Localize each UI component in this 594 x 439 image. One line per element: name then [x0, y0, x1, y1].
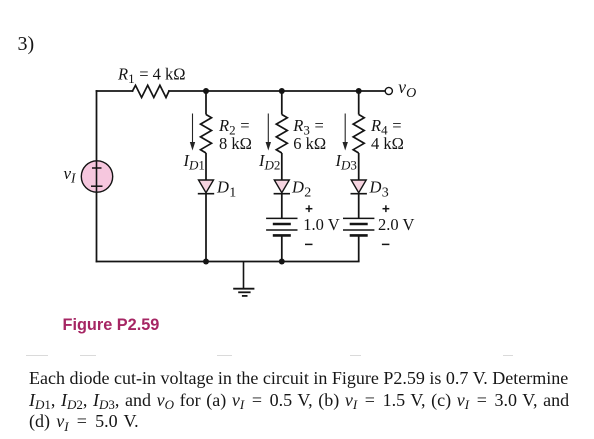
svg-text:ID1: ID1	[183, 151, 205, 173]
svg-text:vI: vI	[64, 164, 78, 186]
svg-text:8 kΩ: 8 kΩ	[219, 134, 252, 153]
svg-text:D2: D2	[291, 177, 311, 200]
svg-text:R1 = 4 kΩ: R1 = 4 kΩ	[117, 65, 186, 87]
svg-text:ID2: ID2	[258, 151, 280, 173]
svg-text:D1: D1	[216, 177, 236, 200]
svg-text:D3: D3	[369, 177, 389, 200]
svg-text:vO: vO	[398, 77, 416, 101]
svg-text:ID3: ID3	[335, 151, 357, 173]
svg-text:1.0 V: 1.0 V	[303, 215, 339, 234]
svg-text:6 kΩ: 6 kΩ	[293, 134, 326, 153]
svg-text:4 kΩ: 4 kΩ	[371, 134, 404, 153]
svg-text:2.0 V: 2.0 V	[378, 215, 414, 234]
